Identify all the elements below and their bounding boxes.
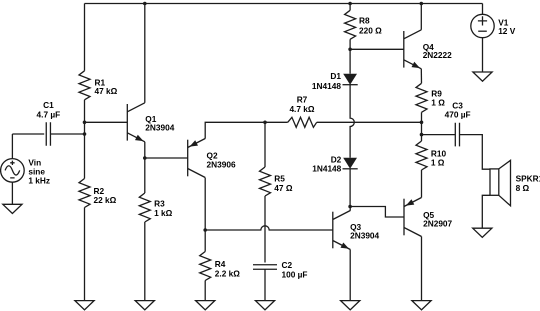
node output/feedback junction <box>420 121 424 125</box>
node Q1 emitter junction <box>143 156 147 160</box>
transistor Q2 2N3906 (PNP) <box>188 139 206 178</box>
source Vin sine <box>1 159 25 183</box>
wire node to Q3 collector <box>349 207 351 211</box>
node rail/Q1 collector <box>143 2 147 6</box>
wire C1 right plate to node <box>51 133 85 135</box>
node C1 junction <box>83 132 87 136</box>
svg-text:1 Ω: 1 Ω <box>431 98 445 108</box>
svg-text:4.7 kΩ: 4.7 kΩ <box>289 104 314 114</box>
svg-text:R8: R8 <box>359 16 370 26</box>
node Q2 collector/R4 junction <box>203 228 207 232</box>
svg-text:220 Ω: 220 Ω <box>359 25 382 35</box>
transistor Q5 2N2907 (PNP) <box>404 198 422 237</box>
ground SPKR1 <box>473 228 492 237</box>
ground R3 <box>135 301 154 310</box>
wire node to R7 <box>265 121 288 123</box>
ground R4 <box>196 301 215 310</box>
diode D1 1N4148 <box>343 74 358 85</box>
wire R4 to ground <box>204 281 206 301</box>
resistor R7 <box>288 117 317 127</box>
svg-text:R5: R5 <box>274 173 285 183</box>
speaker SPKR1 <box>490 160 511 206</box>
wire rail to R8 <box>349 4 351 11</box>
wire R9 to output node <box>421 112 423 122</box>
wire base node to C1 node <box>84 122 86 134</box>
svg-text:2N3904: 2N3904 <box>350 231 379 241</box>
diode D2 1N4148 <box>343 158 358 169</box>
resistor R3 <box>139 193 150 222</box>
wire Q1 emitter to Q2 base <box>145 157 188 159</box>
resistor R5 <box>260 167 271 196</box>
ground Vin <box>3 204 22 213</box>
node rail/R8 <box>348 2 352 6</box>
wire node to R4 <box>204 230 206 252</box>
svg-text:8 Ω: 8 Ω <box>516 183 530 193</box>
wire output node down <box>421 122 423 134</box>
wire C2 to ground <box>264 269 266 300</box>
wire R5 to C2 <box>264 196 266 263</box>
wire Q4 emitter to R9 <box>420 69 422 84</box>
svg-text:1 kHz: 1 kHz <box>28 176 50 186</box>
wire node to D1 anode <box>349 49 351 73</box>
wire R2 to ground <box>84 208 86 301</box>
svg-text:47 kΩ: 47 kΩ <box>95 86 118 96</box>
capacitor C3 <box>455 123 459 147</box>
voltage source V1 <box>471 14 494 37</box>
wire node to C3 <box>422 134 456 136</box>
resistor R1 <box>79 71 90 100</box>
wire speaker - to ground <box>482 195 490 228</box>
transistor Q3 2N3904 (NPN) <box>333 211 351 250</box>
wire Vin to C1 left plate <box>12 133 44 135</box>
wire rail to R1 <box>84 4 86 71</box>
transistor Q1 2N3904 (NPN) <box>127 103 145 142</box>
svg-text:C2: C2 <box>282 260 293 270</box>
wire R7 to output node <box>317 121 422 123</box>
node R1/R2/Q1-base junction <box>83 121 87 125</box>
ground C2 <box>255 301 274 310</box>
wire D1 cathode to D2 anode (hop over R7 line) <box>350 85 354 158</box>
svg-text:4.7 µF: 4.7 µF <box>37 110 61 120</box>
resistor R4 <box>200 252 211 281</box>
svg-text:47 Ω: 47 Ω <box>274 183 293 193</box>
node R8/D1/Q4-base junction <box>348 48 352 52</box>
svg-text:12 V: 12 V <box>498 26 516 36</box>
wire R10 to Q5 emitter <box>421 170 423 198</box>
wire Q2 collector to Q3 base (hop over C2 line) <box>205 226 333 230</box>
wire R1 to base node <box>84 100 86 123</box>
ground Q3 <box>341 301 360 310</box>
wire Q1 emitter down <box>144 142 146 158</box>
wire emitter node to R3 <box>144 158 146 193</box>
svg-text:1N4148: 1N4148 <box>312 163 341 173</box>
ground V1 <box>473 72 492 81</box>
wire V1 - to ground <box>482 38 484 72</box>
node Q2 emitter/R5/R7 junction <box>263 121 267 125</box>
resistor R9 <box>416 83 427 112</box>
wire Q2 collector down <box>204 178 206 230</box>
node D2/Q3-collector/Q5-base junction <box>348 205 352 209</box>
svg-text:2N2222: 2N2222 <box>423 50 452 60</box>
capacitor C2 <box>253 265 277 270</box>
svg-text:1N4148: 1N4148 <box>312 81 341 91</box>
resistor R10 <box>416 141 427 170</box>
svg-text:2N3906: 2N3906 <box>207 159 236 169</box>
svg-text:D1: D1 <box>330 71 341 81</box>
svg-text:22 kΩ: 22 kΩ <box>94 195 117 205</box>
resistor R8 <box>345 10 356 39</box>
node rail/Q4 collector <box>420 2 424 6</box>
svg-text:C1: C1 <box>43 100 54 110</box>
wire node down to R5 <box>264 122 266 167</box>
ground Q5 <box>412 301 431 310</box>
svg-text:2N2907: 2N2907 <box>423 218 452 228</box>
transistor Q4 2N2222 (NPN) <box>404 30 422 69</box>
wire Vin to ground <box>11 182 13 204</box>
svg-text:1 kΩ: 1 kΩ <box>154 208 173 218</box>
wire R8 to Q4 base node <box>349 39 351 49</box>
node C3 branch junction <box>420 133 424 137</box>
wire Q1 collector to rail <box>144 4 146 103</box>
svg-text:SPKR1: SPKR1 <box>516 174 540 184</box>
wire R3 to ground <box>144 222 146 301</box>
svg-text:100 µF: 100 µF <box>282 270 308 280</box>
ground R2 <box>75 301 94 310</box>
wire node to R10 <box>421 135 423 141</box>
wire C1 node to R2 <box>84 134 86 179</box>
wire Q5 collector to ground <box>421 237 423 301</box>
wire Q3 emitter to ground <box>349 250 351 301</box>
wire C3 to speaker + <box>460 135 491 170</box>
svg-text:1 Ω: 1 Ω <box>431 157 445 167</box>
resistor R2 <box>79 179 90 208</box>
wire down to Vin source <box>11 134 13 159</box>
wire node to Q5 base <box>350 207 404 218</box>
wire node to Q4 base <box>350 48 404 50</box>
wire rail corner to V1 + <box>482 4 484 15</box>
wire Q2 emitter up to feedback node <box>205 122 265 138</box>
svg-text:2N3904: 2N3904 <box>145 123 174 133</box>
wire Vcc top rail <box>85 3 483 5</box>
wire D2 cathode to Q3 collector node <box>349 169 351 207</box>
svg-text:2.2 kΩ: 2.2 kΩ <box>215 268 240 278</box>
wire base node to Q1 base <box>85 121 128 123</box>
capacitor C1 <box>46 122 50 146</box>
svg-text:470 µF: 470 µF <box>445 110 471 120</box>
wire Q4 collector to rail <box>420 4 422 30</box>
